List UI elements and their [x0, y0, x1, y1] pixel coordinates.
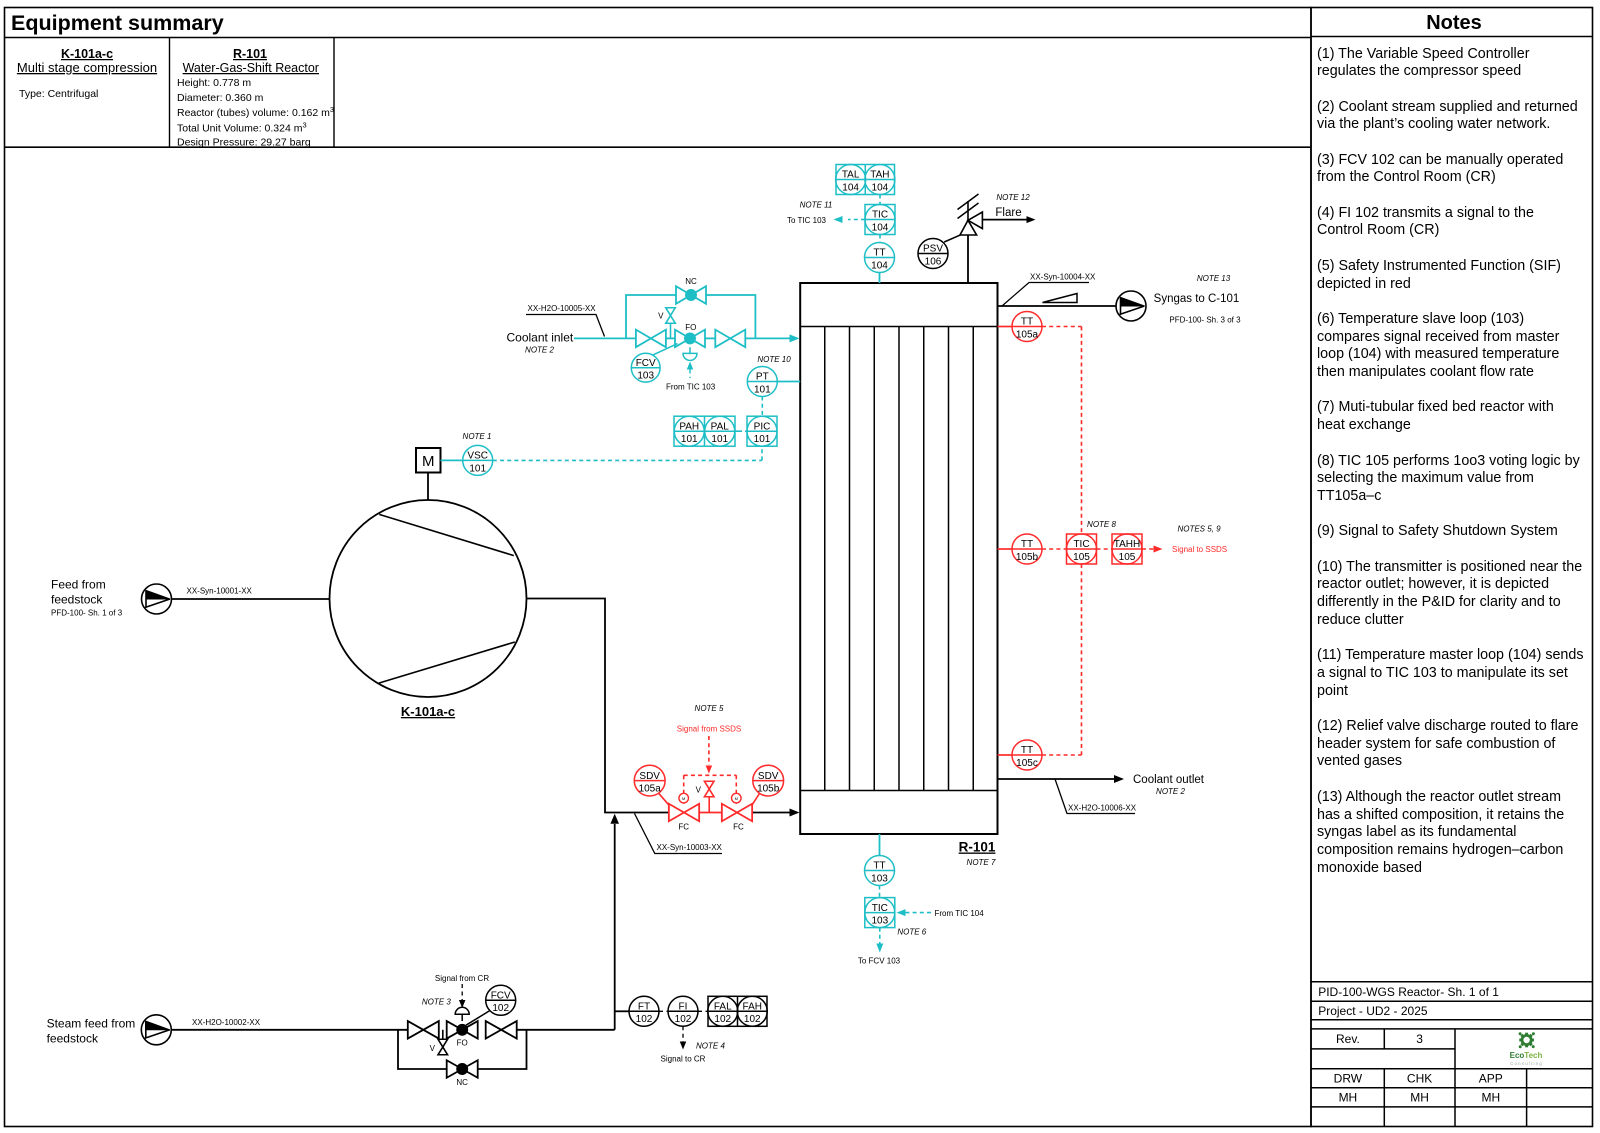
- svg-text:Diameter: 0.360 m: Diameter: 0.360 m: [177, 92, 264, 104]
- signal dash PT to PIC: [761, 397, 763, 417]
- signal to TIC 103 arrow: [787, 216, 865, 225]
- svg-text:VSC: VSC: [467, 451, 488, 462]
- actuator diaphragm FCV 103: [683, 347, 697, 360]
- instrument FI 102: [668, 996, 698, 1026]
- svg-text:Height: 0.778 m: Height: 0.778 m: [177, 77, 251, 89]
- signal from TIC 104 arrow: [897, 909, 985, 918]
- flare hatch marks: [958, 194, 979, 219]
- signal from CR arrow: [435, 974, 489, 1008]
- signal from SSDS arrow: [677, 725, 741, 774]
- svg-text:PAH: PAH: [679, 421, 699, 432]
- svg-text:PAL: PAL: [711, 421, 730, 432]
- svg-text:feedstock: feedstock: [51, 593, 103, 607]
- feed from feedstock text: [51, 577, 123, 617]
- note 6 label: [897, 927, 926, 936]
- leader FCV 103 to valve: [653, 344, 678, 356]
- compressor K-101a-c: [330, 500, 527, 697]
- svg-text:FO: FO: [685, 323, 696, 332]
- svg-text:105: 105: [1119, 552, 1136, 563]
- instrument TIC 103: [865, 898, 895, 928]
- svg-text:Signal to SSDS: Signal to SSDS: [1172, 545, 1227, 554]
- leader SDV 105a to valve: [659, 793, 669, 805]
- svg-text:TAH: TAH: [870, 170, 889, 181]
- svg-text:Syngas to C-101: Syngas to C-101: [1154, 293, 1240, 305]
- svg-text:FC: FC: [678, 822, 689, 831]
- svg-text:TIC: TIC: [1073, 539, 1089, 550]
- svg-text:Project - UD2 - 2025: Project - UD2 - 2025: [1318, 1004, 1428, 1018]
- instrument TAL TAH 104: [836, 165, 895, 195]
- svg-text:TAHH: TAHH: [1114, 539, 1140, 550]
- instrument TT 105b: [1012, 534, 1042, 564]
- wire coolant outlet: [998, 775, 1125, 783]
- equipment summary column divider 2: [333, 38, 335, 148]
- title block rev row: [1336, 1032, 1423, 1046]
- title block sheet text: [1318, 985, 1499, 999]
- svg-text:TT: TT: [1021, 539, 1033, 550]
- note 3 label: [422, 997, 451, 1006]
- svg-text:103: 103: [871, 916, 888, 927]
- instrument VSC 101: [463, 445, 493, 475]
- title block MH row: [1339, 1091, 1501, 1105]
- line label XX-H2O-10002-XX: [192, 1018, 261, 1027]
- bypass valve NC coolant: [676, 277, 706, 304]
- svg-text:K-101a-c: K-101a-c: [401, 704, 455, 719]
- wire syngas between SDVs: [699, 812, 722, 814]
- svg-text:105a: 105a: [1016, 329, 1039, 340]
- svg-text:Signal to CR: Signal to CR: [661, 1055, 706, 1064]
- leader SDV 105b to valve: [752, 793, 760, 805]
- svg-text:XX-Syn-10001-XX: XX-Syn-10001-XX: [187, 587, 253, 596]
- svg-text:NOTE 4: NOTE 4: [696, 1042, 725, 1051]
- wire flare arrow: [982, 207, 1035, 223]
- signal dash FI-FAL: [698, 1010, 708, 1012]
- svg-text:R-101: R-101: [959, 840, 996, 855]
- valve FC label a: [678, 822, 689, 831]
- wire reactor to TT 105a: [998, 326, 1013, 328]
- svg-text:M: M: [735, 796, 738, 801]
- svg-text:102: 102: [675, 1014, 692, 1025]
- svg-text:NOTE 2: NOTE 2: [1156, 787, 1185, 796]
- wire PT 101 to reactor: [777, 381, 800, 383]
- vent valve V steam: [430, 1030, 448, 1055]
- instrument SDV 105b: [753, 765, 784, 796]
- svg-text:Type: Centrifugal: Type: Centrifugal: [19, 88, 98, 100]
- instrument TT 103: [865, 856, 895, 886]
- instrument FT 102: [629, 996, 659, 1026]
- svg-text:MH: MH: [1481, 1091, 1500, 1105]
- svg-text:PSV: PSV: [923, 244, 943, 255]
- coolant outlet text: [1133, 774, 1205, 796]
- svg-text:SDV: SDV: [758, 771, 779, 782]
- coolant inlet text: [507, 331, 574, 355]
- line label callout XX-H2O-10005-XX: [526, 304, 605, 337]
- svg-text:Total Unit Volume: 0.324 m3: Total Unit Volume: 0.324 m3: [177, 121, 307, 135]
- svg-text:M: M: [682, 796, 685, 801]
- svg-text:TT: TT: [873, 248, 885, 259]
- reducer symbol: [1043, 294, 1078, 303]
- svg-text:CHK: CHK: [1407, 1072, 1432, 1086]
- svg-text:3: 3: [1416, 1032, 1423, 1046]
- instrument FCV 103: [631, 353, 660, 382]
- svg-text:Flare: Flare: [995, 207, 1021, 219]
- svg-text:TT: TT: [1021, 745, 1033, 756]
- signal wire SSDS to SDV actuators: [684, 775, 737, 793]
- svg-text:C o n s u l t i n g: C o n s u l t i n g: [1510, 1061, 1542, 1066]
- equipment cell R-101 text: [177, 47, 334, 149]
- svg-text:V: V: [430, 1044, 436, 1053]
- svg-text:PT: PT: [756, 372, 769, 383]
- svg-text:102: 102: [714, 1014, 731, 1025]
- instrument FCV 102: [486, 985, 516, 1015]
- signal dash TT105b to TIC105: [1042, 548, 1067, 550]
- svg-text:102: 102: [492, 1003, 509, 1014]
- svg-text:PFD-100- Sh. 3 of 3: PFD-100- Sh. 3 of 3: [1169, 315, 1241, 324]
- svg-text:102: 102: [636, 1014, 653, 1025]
- svg-text:105a: 105a: [639, 784, 662, 795]
- svg-text:Equipment summary: Equipment summary: [11, 11, 224, 35]
- wire syngas to reactor: [752, 809, 799, 817]
- svg-text:XX-H2O-10006-XX: XX-H2O-10006-XX: [1068, 804, 1137, 813]
- notes panel header: [1311, 12, 1593, 37]
- svg-text:TIC: TIC: [872, 210, 888, 221]
- vent valve V coolant: [658, 308, 675, 339]
- signal dash TAH to TIC 104: [879, 195, 881, 205]
- svg-text:To TIC 103: To TIC 103: [787, 216, 827, 225]
- svg-text:101: 101: [681, 434, 698, 445]
- wire reactor to TT 105b: [998, 548, 1013, 550]
- svg-text:From TIC 103: From TIC 103: [666, 382, 716, 391]
- svg-text:TT: TT: [873, 861, 885, 872]
- svg-text:FC: FC: [733, 822, 744, 831]
- relief valve PSV: [960, 201, 982, 235]
- off-page connector steam: [141, 1015, 171, 1045]
- svg-text:FAH: FAH: [743, 1002, 762, 1013]
- equipment cell K-101a-c text: [17, 47, 157, 100]
- valve FC label b: [733, 822, 744, 831]
- svg-text:Feed from: Feed from: [51, 577, 106, 591]
- svg-text:NOTE 10: NOTE 10: [757, 355, 791, 364]
- svg-text:K-101a-c: K-101a-c: [61, 47, 113, 61]
- svg-text:feedstock: feedstock: [47, 1032, 99, 1046]
- svg-text:101: 101: [469, 463, 486, 474]
- svg-text:104: 104: [842, 182, 859, 193]
- svg-text:FCV: FCV: [491, 991, 511, 1002]
- svg-text:103: 103: [871, 873, 888, 884]
- svg-text:FCV: FCV: [636, 358, 656, 369]
- svg-text:NOTE 12: NOTE 12: [996, 193, 1030, 202]
- svg-text:From TIC 104: From TIC 104: [935, 909, 985, 918]
- notes 5 9 label: [1177, 525, 1221, 534]
- instrument PIC 101: [747, 416, 777, 446]
- shutdown valve SDV 105b: [722, 793, 752, 821]
- svg-text:DRW: DRW: [1334, 1072, 1363, 1086]
- line label callout XX-H2O-10006-XX: [1055, 779, 1137, 814]
- svg-text:PID-100-WGS Reactor- Sh. 1 of: PID-100-WGS Reactor- Sh. 1 of 1: [1318, 985, 1499, 999]
- signal from TIC 103 arrow: [666, 362, 716, 392]
- wire reactor to TT 103: [879, 834, 881, 856]
- svg-text:Coolant inlet: Coolant inlet: [507, 331, 574, 345]
- line label callout XX-Syn-10004-XX: [1002, 273, 1096, 307]
- signal wire VSC 101 to PIC 101: [493, 446, 762, 460]
- equipment summary column divider 1: [169, 38, 171, 148]
- instrument SDV 105a: [634, 765, 665, 796]
- svg-text:104: 104: [872, 222, 889, 233]
- syngas to C-101 text: [1154, 293, 1241, 324]
- svg-text:XX-H2O-10005-XX: XX-H2O-10005-XX: [528, 304, 597, 313]
- svg-text:NOTE 2: NOTE 2: [525, 346, 554, 355]
- svg-text:EcoTech: EcoTech: [1510, 1051, 1543, 1060]
- wire coolant inlet: [574, 334, 800, 342]
- signal dash TIC105 to TAHH105: [1097, 548, 1113, 550]
- svg-text:Notes: Notes: [1426, 12, 1482, 34]
- svg-text:R-101: R-101: [233, 47, 267, 61]
- reactor label R-101: [959, 840, 996, 855]
- control valve FCV 102 body: [447, 1021, 478, 1048]
- wire M to VSC 101: [441, 459, 463, 461]
- svg-text:Reactor (tubes) volume: 0.162: Reactor (tubes) volume: 0.162 m3: [177, 105, 334, 119]
- gate valve steam 1: [408, 1021, 439, 1039]
- instrument PT 101: [747, 367, 777, 397]
- line label callout XX-Syn-10003-XX: [635, 814, 723, 854]
- svg-text:105b: 105b: [1016, 552, 1039, 563]
- instrument FAL FAH 102: [708, 996, 768, 1026]
- EcoTech logo: [1510, 1032, 1543, 1066]
- svg-text:APP: APP: [1479, 1072, 1503, 1086]
- gate valve steam 2: [486, 1021, 517, 1039]
- svg-text:Signal from CR: Signal from CR: [435, 974, 489, 983]
- svg-text:NOTE 13: NOTE 13: [1197, 274, 1231, 283]
- steam bypass with NC valve: [398, 1030, 527, 1087]
- leader FCV 102 to valve: [466, 1011, 490, 1026]
- instrument TT 105c: [1012, 740, 1042, 770]
- svg-text:PFD-100- Sh. 1 of 3: PFD-100- Sh. 1 of 3: [51, 608, 123, 617]
- svg-text:NOTE 5: NOTE 5: [695, 704, 724, 713]
- svg-text:M: M: [422, 453, 435, 470]
- instrument PSV 106: [918, 239, 948, 269]
- line label XX-Syn-10001-XX: [187, 587, 253, 596]
- wire FT branch: [615, 1010, 629, 1012]
- svg-text:V: V: [658, 312, 664, 321]
- gate valve coolant 2: [715, 330, 745, 348]
- svg-text:MH: MH: [1410, 1091, 1429, 1105]
- signal to CR arrow: [661, 1026, 706, 1063]
- svg-text:105: 105: [1073, 552, 1090, 563]
- svg-text:NC: NC: [685, 277, 697, 286]
- svg-text:FAL: FAL: [714, 1002, 732, 1013]
- compressor label K-101a-c: [401, 704, 455, 719]
- junction arrow steam into syngas line: [610, 814, 619, 1030]
- signal dash TT103 to TIC103: [879, 886, 881, 898]
- title block project text: [1318, 1004, 1428, 1018]
- vent valve V between SDVs: [696, 781, 714, 812]
- wire reactor to PSV: [967, 235, 969, 284]
- wire steam to junction: [517, 1029, 615, 1031]
- svg-text:FO: FO: [457, 1039, 468, 1048]
- svg-text:Coolant outlet: Coolant outlet: [1133, 774, 1205, 786]
- note 5 label: [695, 704, 724, 713]
- note 7 label: [967, 858, 996, 867]
- instrument TT 104: [865, 243, 895, 273]
- actuator diaphragm FCV 102: [455, 1007, 469, 1021]
- svg-text:TIC: TIC: [872, 903, 888, 914]
- svg-text:XX-Syn-10004-XX: XX-Syn-10004-XX: [1030, 273, 1096, 282]
- instrument TT 105a: [1012, 312, 1042, 342]
- instrument PAH PAL 101: [674, 416, 735, 446]
- equipment summary row bottom line: [5, 146, 1312, 148]
- svg-text:102: 102: [744, 1014, 761, 1025]
- svg-text:TT: TT: [1021, 317, 1033, 328]
- wire steam line XX-H2O-10002-XX: [171, 1029, 407, 1031]
- svg-text:FT: FT: [638, 1002, 650, 1013]
- svg-text:105b: 105b: [757, 784, 780, 795]
- svg-text:TAL: TAL: [842, 170, 860, 181]
- note 10 label: [757, 355, 791, 364]
- svg-text:NOTE 1: NOTE 1: [463, 432, 492, 441]
- svg-text:Water-Gas-Shift Reactor: Water-Gas-Shift Reactor: [183, 61, 319, 75]
- svg-text:106: 106: [925, 256, 942, 267]
- svg-text:101: 101: [711, 434, 728, 445]
- svg-text:To FCV 103: To FCV 103: [858, 957, 901, 966]
- svg-text:104: 104: [871, 260, 888, 271]
- svg-text:Rev.: Rev.: [1336, 1032, 1360, 1046]
- steam feed text: [47, 1016, 136, 1045]
- instrument TIC 104: [865, 205, 895, 235]
- coolant bypass wire: [626, 295, 755, 338]
- note 8 label: [1087, 520, 1116, 529]
- svg-text:NOTE 3: NOTE 3: [422, 997, 451, 1006]
- svg-text:XX-Syn-10003-XX: XX-Syn-10003-XX: [657, 843, 723, 852]
- signal dash FT-FI: [659, 1010, 668, 1012]
- wire TT 104 to reactor: [879, 273, 881, 284]
- signal dash TIC105 down: [1081, 564, 1083, 755]
- title block grid: [1311, 982, 1593, 1127]
- svg-text:NC: NC: [456, 1078, 468, 1087]
- svg-text:SDV: SDV: [639, 771, 660, 782]
- equipment summary header row: [5, 11, 1312, 38]
- svg-text:MH: MH: [1339, 1091, 1358, 1105]
- svg-text:Design Pressure: 29.27 barg: Design Pressure: 29.27 barg: [177, 137, 311, 149]
- wire compressor outlet: [527, 599, 669, 813]
- control valve FCV 103 body: [675, 323, 705, 347]
- signal dashdot PAL to PIC: [735, 430, 747, 432]
- svg-text:Multi stage compression: Multi stage compression: [17, 60, 157, 75]
- wire compressor to motor: [427, 473, 429, 501]
- signal dash TT105c to riser: [1042, 754, 1082, 756]
- wire syngas outlet: [998, 305, 1117, 307]
- wire reactor to TT 105c: [998, 754, 1013, 756]
- svg-text:XX-H2O-10002-XX: XX-H2O-10002-XX: [192, 1018, 261, 1027]
- leader PSV 106 to valve: [944, 235, 961, 242]
- off-page connector syngas: [1116, 291, 1146, 321]
- reactor R-101 vessel: [800, 283, 997, 834]
- svg-text:NOTE 11: NOTE 11: [800, 200, 833, 209]
- instrument TIC 105: [1067, 534, 1097, 564]
- svg-text:V: V: [696, 786, 702, 795]
- svg-text:NOTE 6: NOTE 6: [897, 927, 926, 936]
- signal dash TIC 104 to TT 104: [879, 235, 881, 243]
- off-page connector feed: [142, 584, 172, 614]
- shutdown valve SDV 105a: [669, 793, 699, 821]
- svg-text:NOTE 7: NOTE 7: [967, 858, 996, 867]
- note 4 label: [696, 1042, 725, 1051]
- gate valve coolant 1: [636, 330, 666, 348]
- svg-text:105c: 105c: [1016, 758, 1038, 769]
- signal to SSDS arrow: [1142, 545, 1227, 554]
- svg-text:Signal from SSDS: Signal from SSDS: [677, 725, 741, 734]
- title block DRW CHK APP: [1334, 1072, 1503, 1086]
- svg-text:Steam feed from: Steam feed from: [47, 1016, 136, 1030]
- instrument TAHH 105: [1112, 534, 1142, 564]
- svg-text:NOTES 5, 9: NOTES 5, 9: [1177, 525, 1221, 534]
- svg-text:PIC: PIC: [754, 421, 771, 432]
- motor M box: [416, 448, 441, 473]
- signal TIC103 to FCV103 arrow: [858, 928, 901, 966]
- svg-text:103: 103: [637, 371, 654, 382]
- svg-text:101: 101: [754, 434, 771, 445]
- svg-text:101: 101: [754, 384, 771, 395]
- notes panel border: [1311, 8, 1593, 1127]
- note 13 label: [1197, 274, 1231, 283]
- wire feed line XX-Syn-10001-XX: [172, 598, 330, 600]
- signal dash TT105a to TIC105: [1042, 327, 1082, 535]
- svg-text:NOTE 8: NOTE 8: [1087, 520, 1116, 529]
- note 11 label: [800, 200, 833, 209]
- svg-text:FI: FI: [679, 1002, 688, 1013]
- note 1 label: [463, 432, 492, 441]
- svg-text:104: 104: [872, 182, 889, 193]
- notes text panel: [1317, 46, 1590, 896]
- note 12 label: [996, 193, 1030, 202]
